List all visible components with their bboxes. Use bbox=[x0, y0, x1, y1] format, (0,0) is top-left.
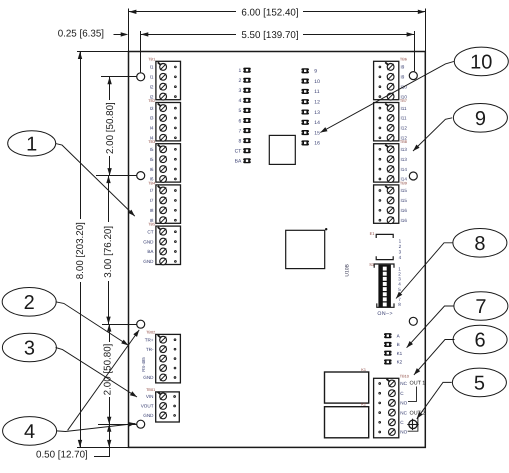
jumper header E1 pins 1-4 bbox=[370, 231, 402, 260]
leader line 10 to LED 16 bbox=[320, 61, 454, 132]
svg-text:2: 2 bbox=[239, 78, 242, 84]
callout balloon 3 bbox=[2, 333, 56, 362]
leader line 6 to output terminal TB10 bbox=[414, 340, 455, 375]
svg-text:I13: I13 bbox=[401, 147, 408, 152]
svg-text:I6: I6 bbox=[150, 167, 154, 172]
svg-text:6.00 [152.40]: 6.00 [152.40] bbox=[241, 7, 298, 18]
svg-text:BA: BA bbox=[235, 159, 242, 165]
svg-text:3: 3 bbox=[399, 250, 402, 255]
label OUT 2 with bracket bbox=[408, 411, 426, 432]
input status LEDs 1-8 CT BA (left column) bbox=[235, 68, 251, 165]
svg-text:I5: I5 bbox=[150, 157, 154, 162]
leader line 5 to mounting hole H8 bbox=[417, 382, 452, 418]
svg-text:0.50 [12.70]: 0.50 [12.70] bbox=[36, 450, 88, 461]
svg-text:5.50 [139.70]: 5.50 [139.70] bbox=[241, 30, 298, 41]
label OUT 1 with bracket bbox=[408, 381, 425, 402]
svg-text:0.25 [6.35]: 0.25 [6.35] bbox=[58, 28, 105, 39]
svg-text:10: 10 bbox=[314, 79, 320, 85]
relay K2 bbox=[325, 403, 369, 438]
callout balloon 9 bbox=[453, 104, 507, 133]
svg-text:NO: NO bbox=[400, 401, 407, 406]
callout balloon 10 bbox=[454, 47, 508, 76]
svg-text:3: 3 bbox=[239, 88, 242, 94]
dimension 8.00 [203.20] overall height bbox=[75, 52, 86, 448]
svg-text:I13: I13 bbox=[401, 157, 408, 162]
svg-text:GND: GND bbox=[143, 413, 154, 418]
leader line 4b to mounting hole H3 bbox=[68, 330, 140, 430]
leader line 4a to mounting hole H4 bbox=[57, 422, 136, 432]
svg-text:E1: E1 bbox=[370, 231, 376, 236]
relay K1 bbox=[325, 368, 369, 403]
dimension extension lines left bbox=[77, 52, 137, 448]
svg-text:6: 6 bbox=[239, 118, 242, 124]
svg-text:4: 4 bbox=[24, 421, 35, 443]
leader line 1 to input terminal area bbox=[56, 144, 135, 217]
svg-text:8: 8 bbox=[239, 138, 242, 144]
terminal block TB2 (I3/I3/I4/I4) bbox=[148, 99, 180, 141]
svg-text:TB6: TB6 bbox=[400, 58, 407, 62]
terminal block TB1 (I1/I1/I2/I2) bbox=[148, 58, 180, 100]
svg-text:K2: K2 bbox=[397, 360, 403, 365]
mounting hole H7 lower-right bbox=[409, 317, 417, 325]
svg-text:I16: I16 bbox=[401, 218, 408, 223]
svg-text:OUT 2: OUT 2 bbox=[410, 411, 426, 417]
DIP switch S1 8-position with ON-> label bbox=[369, 262, 401, 317]
svg-text:TB8: TB8 bbox=[400, 140, 407, 144]
svg-text:2: 2 bbox=[24, 292, 35, 314]
svg-text:11: 11 bbox=[314, 89, 319, 95]
svg-text:2: 2 bbox=[399, 244, 402, 249]
svg-text:9: 9 bbox=[475, 108, 486, 130]
svg-text:TB01: TB01 bbox=[146, 388, 155, 392]
leader line 3 to power terminal VIN bbox=[56, 348, 137, 398]
leader line 2 to board edge near RS-485 bbox=[56, 302, 129, 346]
svg-text:1: 1 bbox=[399, 239, 402, 244]
svg-text:VIN: VIN bbox=[146, 394, 154, 399]
svg-text:I9: I9 bbox=[401, 75, 405, 80]
terminal block TB10 relay outputs (NC/C/NO x2) bbox=[374, 375, 409, 438]
svg-text:I15: I15 bbox=[401, 188, 408, 193]
svg-text:OUT 1: OUT 1 bbox=[410, 381, 426, 387]
callout balloon 1 bbox=[8, 131, 56, 156]
svg-text:10: 10 bbox=[470, 52, 492, 74]
terminal block TB02 RS-485 (TR+/TR-/GND) bbox=[141, 331, 180, 383]
svg-text:S1: S1 bbox=[369, 262, 375, 267]
svg-text:I3: I3 bbox=[150, 116, 154, 121]
svg-text:6: 6 bbox=[475, 330, 486, 352]
svg-text:3.00 [76.20]: 3.00 [76.20] bbox=[103, 226, 114, 278]
svg-text:12: 12 bbox=[314, 100, 320, 106]
svg-text:14: 14 bbox=[314, 120, 320, 126]
svg-text:I16: I16 bbox=[401, 208, 408, 213]
svg-text:7: 7 bbox=[475, 296, 486, 318]
svg-text:I12: I12 bbox=[401, 126, 408, 131]
svg-text:NC: NC bbox=[400, 381, 407, 386]
svg-text:GND: GND bbox=[143, 239, 154, 244]
callout balloon 4 bbox=[3, 417, 57, 446]
mounting hole H4 bottom-left bbox=[137, 420, 145, 428]
terminal block TB5 (CT/GND/BA/GND) bbox=[143, 223, 180, 265]
svg-text:2.00 [50.80]: 2.00 [50.80] bbox=[102, 343, 113, 395]
leader line 7 to indicator LEDs bbox=[407, 306, 454, 348]
svg-text:I11: I11 bbox=[401, 106, 407, 111]
input status LEDs 9-16 (right column) bbox=[301, 68, 320, 146]
dimension 2.00 [50.80] lower hole pitch bbox=[102, 324, 113, 424]
mounting hole H6 mid-right bbox=[409, 172, 417, 180]
leader line 8 to DIP switch S1 bbox=[396, 243, 453, 299]
svg-text:B: B bbox=[397, 342, 400, 347]
svg-text:K2: K2 bbox=[361, 403, 366, 407]
mounting hole H1 top-left bbox=[137, 73, 145, 81]
svg-text:8: 8 bbox=[398, 302, 401, 307]
dimension 2.00 [50.80] upper hole pitch bbox=[105, 77, 116, 176]
reference designator U10 (vertical) bbox=[344, 263, 350, 276]
callout balloon 2 bbox=[2, 288, 56, 317]
svg-text:NC: NC bbox=[400, 410, 407, 415]
svg-text:1: 1 bbox=[239, 68, 242, 74]
svg-text:4: 4 bbox=[239, 98, 242, 104]
svg-text:TB4: TB4 bbox=[148, 181, 155, 185]
svg-text:TB02: TB02 bbox=[146, 331, 155, 335]
svg-text:8.00 [203.20]: 8.00 [203.20] bbox=[75, 222, 86, 279]
leader line 9 to terminal block TB8 bbox=[413, 118, 452, 151]
terminal block TB6 (I9/I9/I10/I10) bbox=[374, 58, 408, 100]
svg-text:I11: I11 bbox=[401, 116, 407, 121]
svg-text:3: 3 bbox=[24, 338, 35, 360]
svg-text:TB10: TB10 bbox=[400, 375, 409, 379]
mounting hole H2 mid-left bbox=[137, 172, 145, 180]
svg-text:TB9: TB9 bbox=[400, 181, 407, 185]
svg-text:TB3: TB3 bbox=[148, 140, 155, 144]
mounting hole H3 lower-left bbox=[137, 320, 145, 328]
dimension 6.00 [152.40] overall width bbox=[129, 7, 426, 51]
terminal block TB8 (I13/I13/I14/I14) bbox=[374, 140, 408, 182]
svg-text:NO: NO bbox=[400, 430, 407, 435]
svg-text:8: 8 bbox=[474, 233, 485, 255]
svg-text:K1: K1 bbox=[397, 351, 403, 356]
callout balloon 8 bbox=[453, 229, 507, 258]
svg-text:I3: I3 bbox=[150, 106, 154, 111]
svg-text:TB2: TB2 bbox=[148, 99, 155, 103]
svg-text:5: 5 bbox=[239, 108, 242, 114]
svg-text:CT: CT bbox=[147, 229, 153, 234]
svg-text:BA: BA bbox=[147, 249, 154, 254]
indicator LEDs A B K1 K2 bbox=[384, 333, 403, 365]
svg-text:CT: CT bbox=[235, 148, 242, 154]
svg-text:7: 7 bbox=[239, 128, 242, 134]
svg-text:GND: GND bbox=[143, 259, 154, 264]
svg-text:U10B: U10B bbox=[344, 263, 350, 276]
svg-text:RS-485: RS-485 bbox=[141, 357, 146, 372]
svg-text:I5: I5 bbox=[150, 147, 154, 152]
mounting hole H8 bottom-right with crosshair bbox=[407, 419, 418, 430]
svg-text:GND: GND bbox=[143, 375, 154, 380]
svg-text:I7: I7 bbox=[150, 198, 154, 203]
dimension 5.50 [139.70] hole span bbox=[141, 30, 415, 73]
svg-text:1: 1 bbox=[26, 134, 37, 156]
callout balloon 7 bbox=[454, 292, 508, 321]
callout balloon 6 bbox=[453, 325, 507, 354]
svg-text:I1: I1 bbox=[150, 65, 154, 70]
svg-text:I2: I2 bbox=[150, 84, 154, 89]
svg-text:VOUT: VOUT bbox=[141, 404, 154, 409]
dimension 0.25 [6.35] edge offset bbox=[58, 28, 129, 39]
svg-text:2.00 [50.80]: 2.00 [50.80] bbox=[105, 102, 116, 154]
terminal block TB3 (I5/I5/I6/I6) bbox=[148, 140, 180, 182]
svg-text:15: 15 bbox=[314, 130, 320, 136]
terminal block TB01 power (VIN/VOUT/GND) bbox=[141, 388, 180, 422]
svg-text:I14: I14 bbox=[401, 167, 408, 172]
svg-text:K1: K1 bbox=[361, 368, 366, 372]
svg-text:I15: I15 bbox=[401, 198, 408, 203]
svg-text:9: 9 bbox=[314, 69, 317, 75]
svg-text:TR-: TR- bbox=[146, 347, 154, 352]
svg-text:ON–>: ON–> bbox=[377, 311, 393, 317]
dimension 0.50 [12.70] bottom offset bbox=[36, 424, 111, 460]
terminal block TB4 (I7/I7/I8/I8) bbox=[148, 181, 180, 223]
terminal block TB9 (I15/I15/I16/I16) bbox=[374, 181, 408, 223]
svg-text:5: 5 bbox=[474, 373, 485, 395]
mounting hole H5 top-right bbox=[409, 72, 417, 80]
dimension 3.00 [76.20] middle hole pitch bbox=[103, 176, 114, 325]
IC U1 bbox=[269, 135, 295, 164]
svg-text:TB5: TB5 bbox=[148, 223, 155, 227]
svg-text:I8: I8 bbox=[150, 208, 154, 213]
PCB board outline bbox=[129, 52, 426, 448]
svg-text:I7: I7 bbox=[150, 188, 154, 193]
terminal block TB7 (I11/I11/I12/I12) bbox=[374, 99, 408, 141]
svg-text:TB1: TB1 bbox=[148, 58, 155, 62]
svg-text:13: 13 bbox=[314, 110, 320, 116]
svg-text:I9: I9 bbox=[401, 65, 405, 70]
svg-text:TR+: TR+ bbox=[145, 337, 154, 342]
svg-text:16: 16 bbox=[314, 141, 320, 147]
svg-text:TB7: TB7 bbox=[400, 99, 407, 103]
svg-text:4: 4 bbox=[399, 255, 402, 260]
callout balloon 5 bbox=[452, 368, 506, 397]
IC U2 with pin-1 dot bbox=[286, 228, 328, 269]
svg-text:I4: I4 bbox=[150, 126, 154, 131]
svg-text:I1: I1 bbox=[150, 75, 154, 80]
